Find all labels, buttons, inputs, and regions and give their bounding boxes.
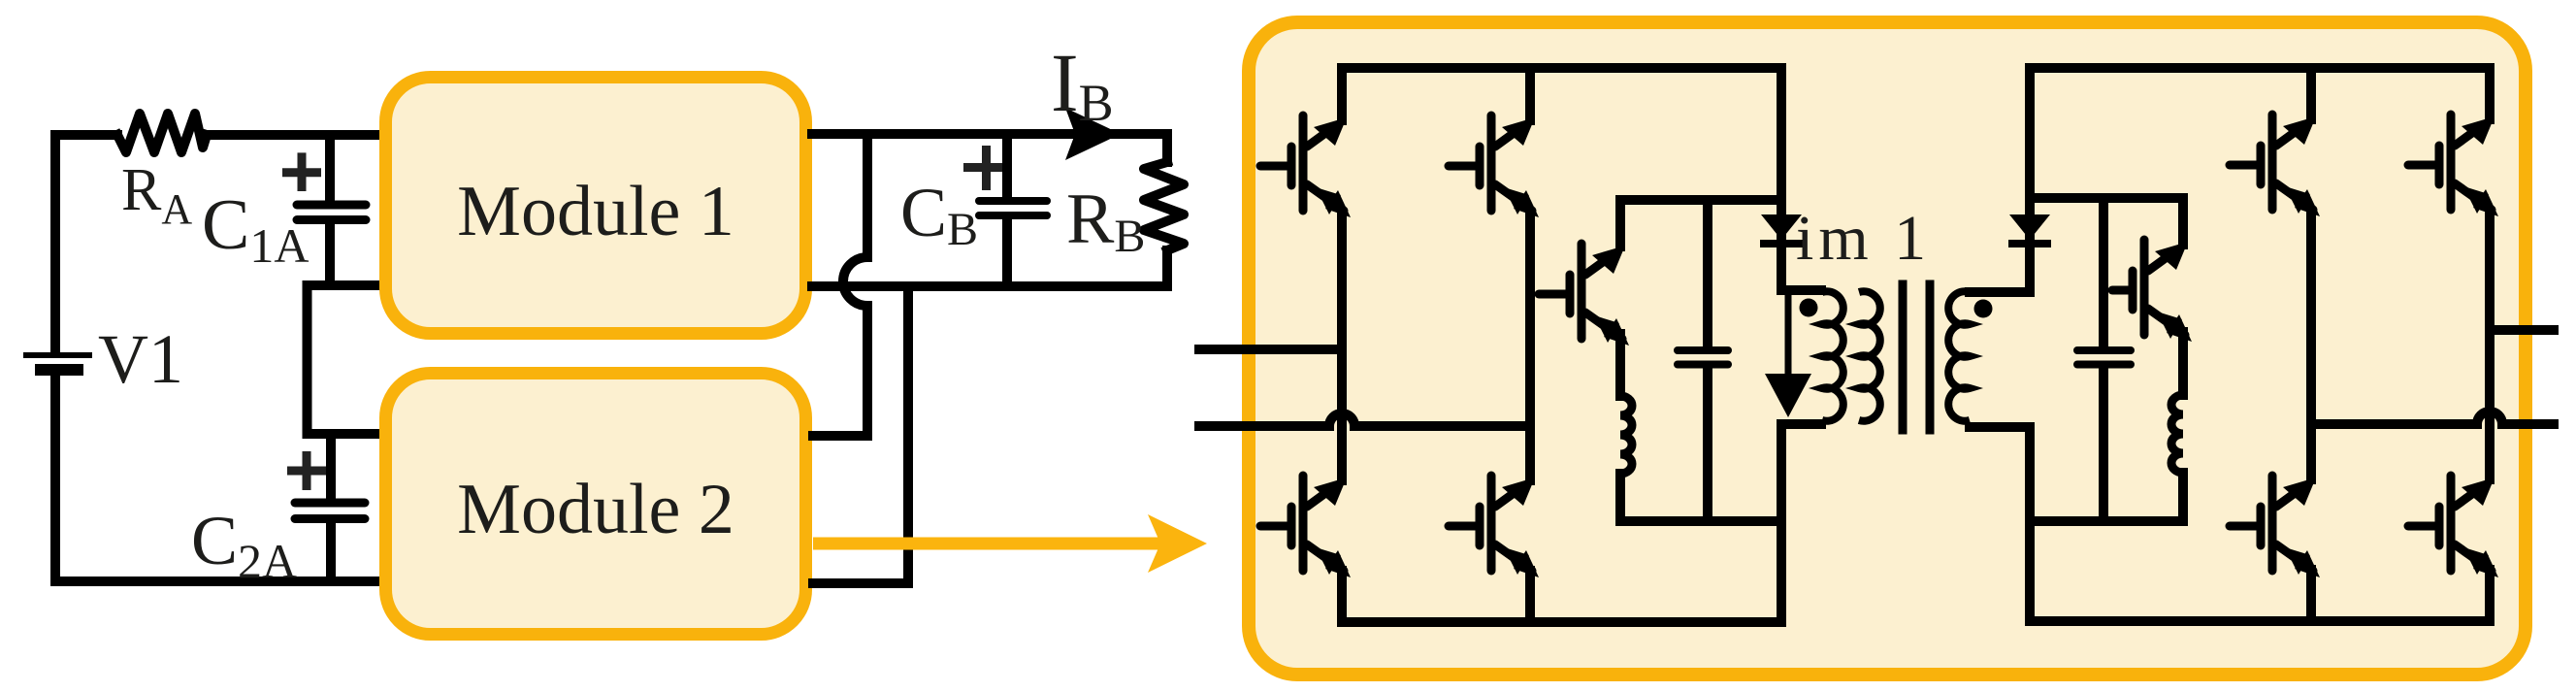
- svg-text:CB: CB: [900, 174, 978, 255]
- svg-text:RB: RB: [1066, 180, 1145, 262]
- svg-text:IB: IB: [1051, 36, 1114, 132]
- svg-text:Module 2: Module 2: [457, 470, 734, 549]
- svg-text:C1A: C1A: [202, 185, 309, 273]
- svg-text:RA: RA: [121, 157, 192, 233]
- svg-text:C2A: C2A: [191, 502, 297, 588]
- svg-text:Module 1: Module 1: [457, 172, 734, 251]
- svg-text:im 1: im 1: [1796, 203, 1931, 274]
- svg-text:V1: V1: [98, 320, 183, 398]
